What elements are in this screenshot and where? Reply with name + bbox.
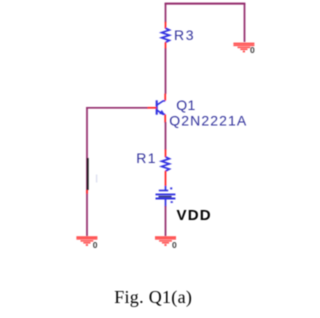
transistor Q1 emitter arrowhead <box>159 110 165 115</box>
cursor artifact faint <box>96 175 98 183</box>
wire red junction bit <box>86 190 88 194</box>
resistor R1 body <box>162 157 170 171</box>
transistor Q1 emitter pin <box>164 115 166 123</box>
svg-text:Q2N2221A: Q2N2221A <box>169 112 247 128</box>
resistor R3 body <box>162 28 170 42</box>
wire battery to ground <box>165 206 167 236</box>
svg-text:Q1: Q1 <box>176 97 195 113</box>
resistor R1 pin top <box>165 149 167 157</box>
wire black overdrawn segment <box>87 158 89 190</box>
svg-text:VDD: VDD <box>177 207 212 224</box>
battery plus mark <box>170 187 172 189</box>
battery minus mark <box>171 201 173 203</box>
svg-text:R3: R3 <box>174 27 195 43</box>
svg-text:Fig. Q1(a): Fig. Q1(a) <box>114 287 192 308</box>
ground 0 bottom left <box>76 237 97 246</box>
resistor R1 pin bottom <box>165 171 167 186</box>
svg-text:R1: R1 <box>136 150 157 166</box>
wire base to left column <box>86 107 147 109</box>
svg-text:0: 0 <box>172 240 177 250</box>
transistor Q1 base pin <box>147 107 157 109</box>
ground 0 top right <box>233 44 254 53</box>
wire top horizontal <box>165 3 246 5</box>
wire right vertical <box>244 3 246 42</box>
resistor R3 pin top <box>165 22 167 29</box>
svg-text:0: 0 <box>93 240 98 250</box>
transistor Q1 collector pin <box>164 94 166 101</box>
voltage source VDD battery <box>156 186 176 207</box>
wire left column vertical <box>86 107 88 236</box>
svg-text:0: 0 <box>250 45 255 55</box>
wire R3 to Q1 collector <box>165 48 167 94</box>
transistor Q1 body <box>157 100 166 114</box>
wire emitter to R1 <box>165 122 167 150</box>
wire left column above R3 <box>165 3 167 23</box>
ground 0 bottom middle <box>155 237 176 246</box>
resistor R3 pin bottom <box>165 42 167 48</box>
